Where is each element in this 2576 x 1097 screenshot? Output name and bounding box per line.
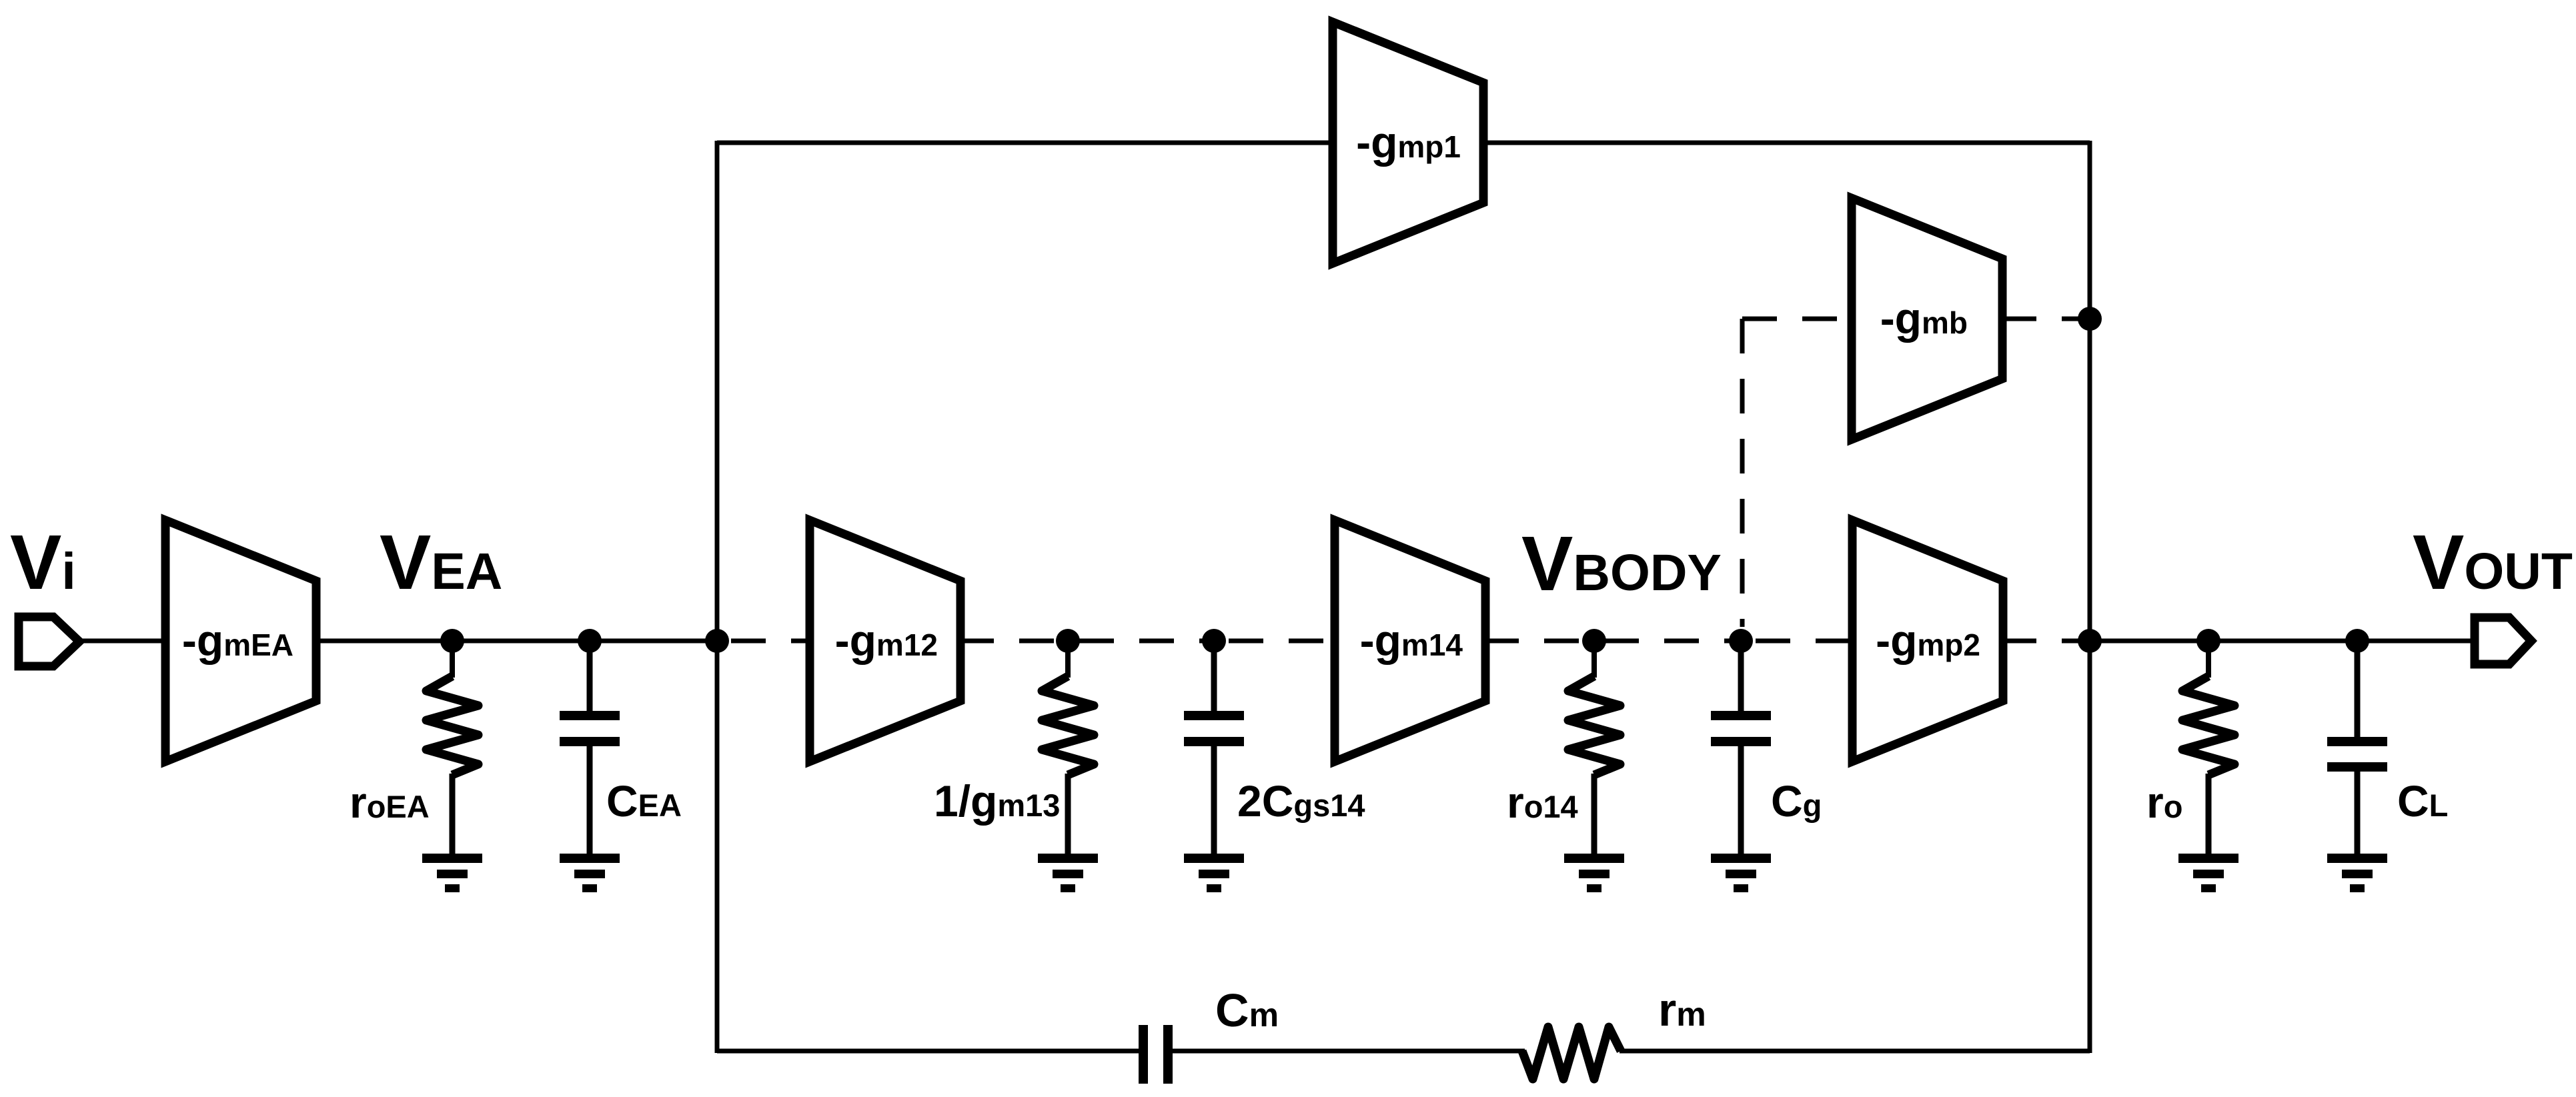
wire dashed gmb row horizontal to -gmb	[1742, 317, 1854, 321]
svg-text:ro14: ro14	[1507, 778, 1578, 827]
op-amp -gmp1	[1333, 22, 1483, 263]
wire dashed -gm12 to 2Cgs14 node	[959, 639, 1214, 644]
capacitor Cg	[1711, 641, 1771, 856]
node VOUT rail dot	[2078, 629, 2102, 653]
ground below CEA	[560, 854, 620, 892]
svg-text:roEA: roEA	[350, 778, 430, 827]
wire top feedback right segment	[1481, 141, 2090, 145]
op-amp -gmp2	[1852, 520, 2003, 762]
ground below Cg	[1711, 854, 1771, 892]
wire gmEA output to split node	[313, 639, 717, 644]
svg-text:Cg: Cg	[1771, 776, 1822, 826]
wire output node to VOUT port	[2090, 639, 2473, 644]
node -gmb output dot	[2078, 307, 2102, 331]
wire dashed Cg node to -gmp2	[1756, 639, 1854, 644]
node CEA dot	[578, 629, 602, 653]
node Cg dot	[1729, 629, 1753, 653]
resistor ro14	[1568, 641, 1620, 856]
wire bottom feedback right segment	[1620, 1049, 2090, 1054]
capacitor CL	[2327, 641, 2387, 856]
ground below ro14	[1564, 854, 1624, 892]
ground below 1/gm13	[1038, 854, 1098, 892]
wire dashed 2Cgs14 node to -gm14	[1229, 639, 1336, 644]
node 1/gm13 dot	[1056, 629, 1080, 653]
wire dashed -gmb output to right vertical	[2002, 317, 2083, 321]
svg-text:1/gm13: 1/gm13	[934, 776, 1060, 826]
svg-text:VEA: VEA	[380, 519, 502, 606]
ground below ro	[2178, 854, 2238, 892]
ground below roEA	[422, 854, 482, 892]
wire dashed split node to -gm12	[731, 639, 812, 644]
capacitor CEA	[560, 641, 620, 856]
svg-text:CL: CL	[2397, 776, 2448, 826]
node VEA dot	[440, 629, 464, 653]
svg-text:rm: rm	[1658, 984, 1706, 1036]
ground below 2Cgs14	[1184, 854, 1244, 892]
svg-text:ro: ro	[2146, 778, 2182, 827]
wire top feedback left segment	[717, 141, 1335, 145]
svg-text:Cm: Cm	[1215, 984, 1279, 1036]
capacitor 2Cgs14	[1184, 641, 1244, 856]
svg-text:Vi: Vi	[10, 519, 76, 606]
resistor ro	[2182, 641, 2234, 856]
node CL dot	[2345, 629, 2369, 653]
op-amp -gm14	[1335, 520, 1485, 762]
node VBODY dot	[1582, 629, 1606, 653]
resistor 1/gm13	[1042, 641, 1094, 856]
wire bottom feedback middle segment	[1173, 1049, 1525, 1054]
op-amp -gmEA	[165, 520, 316, 762]
input port Vi	[19, 617, 79, 666]
node 2Cgs14 dot	[1202, 629, 1226, 653]
wire left vertical (split node to top and bottom)	[715, 141, 720, 1053]
node ro dot	[2196, 629, 2220, 653]
resistor rm (series, bottom feedback)	[1522, 1027, 1621, 1079]
svg-text:VOUT: VOUT	[2413, 519, 2573, 606]
op-amp -gm12	[810, 520, 960, 762]
wire dashed vertical Cg node to gmb row	[1740, 319, 1745, 627]
ground below CL	[2327, 854, 2387, 892]
output port VOUT	[2475, 618, 2531, 664]
svg-text:2Cgs14: 2Cgs14	[1237, 776, 1365, 826]
svg-text:CEA: CEA	[606, 776, 682, 826]
svg-text:VBODY: VBODY	[1521, 520, 1722, 607]
wire input Vi to gmEA	[77, 639, 168, 644]
wire dashed -gm14 to Cg node	[1484, 639, 1741, 644]
resistor roEA	[426, 641, 478, 856]
wire dashed -gmp2 to output node	[2002, 639, 2084, 644]
op-amp -gmb	[1852, 198, 2002, 439]
capacitor Cm (series, bottom feedback)	[1139, 1025, 1173, 1084]
wire bottom feedback left segment	[717, 1049, 1140, 1054]
wire right vertical (top wire to output node to bottom wire)	[2088, 141, 2092, 1053]
node split (VEA rail / feedback) dot	[705, 629, 729, 653]
